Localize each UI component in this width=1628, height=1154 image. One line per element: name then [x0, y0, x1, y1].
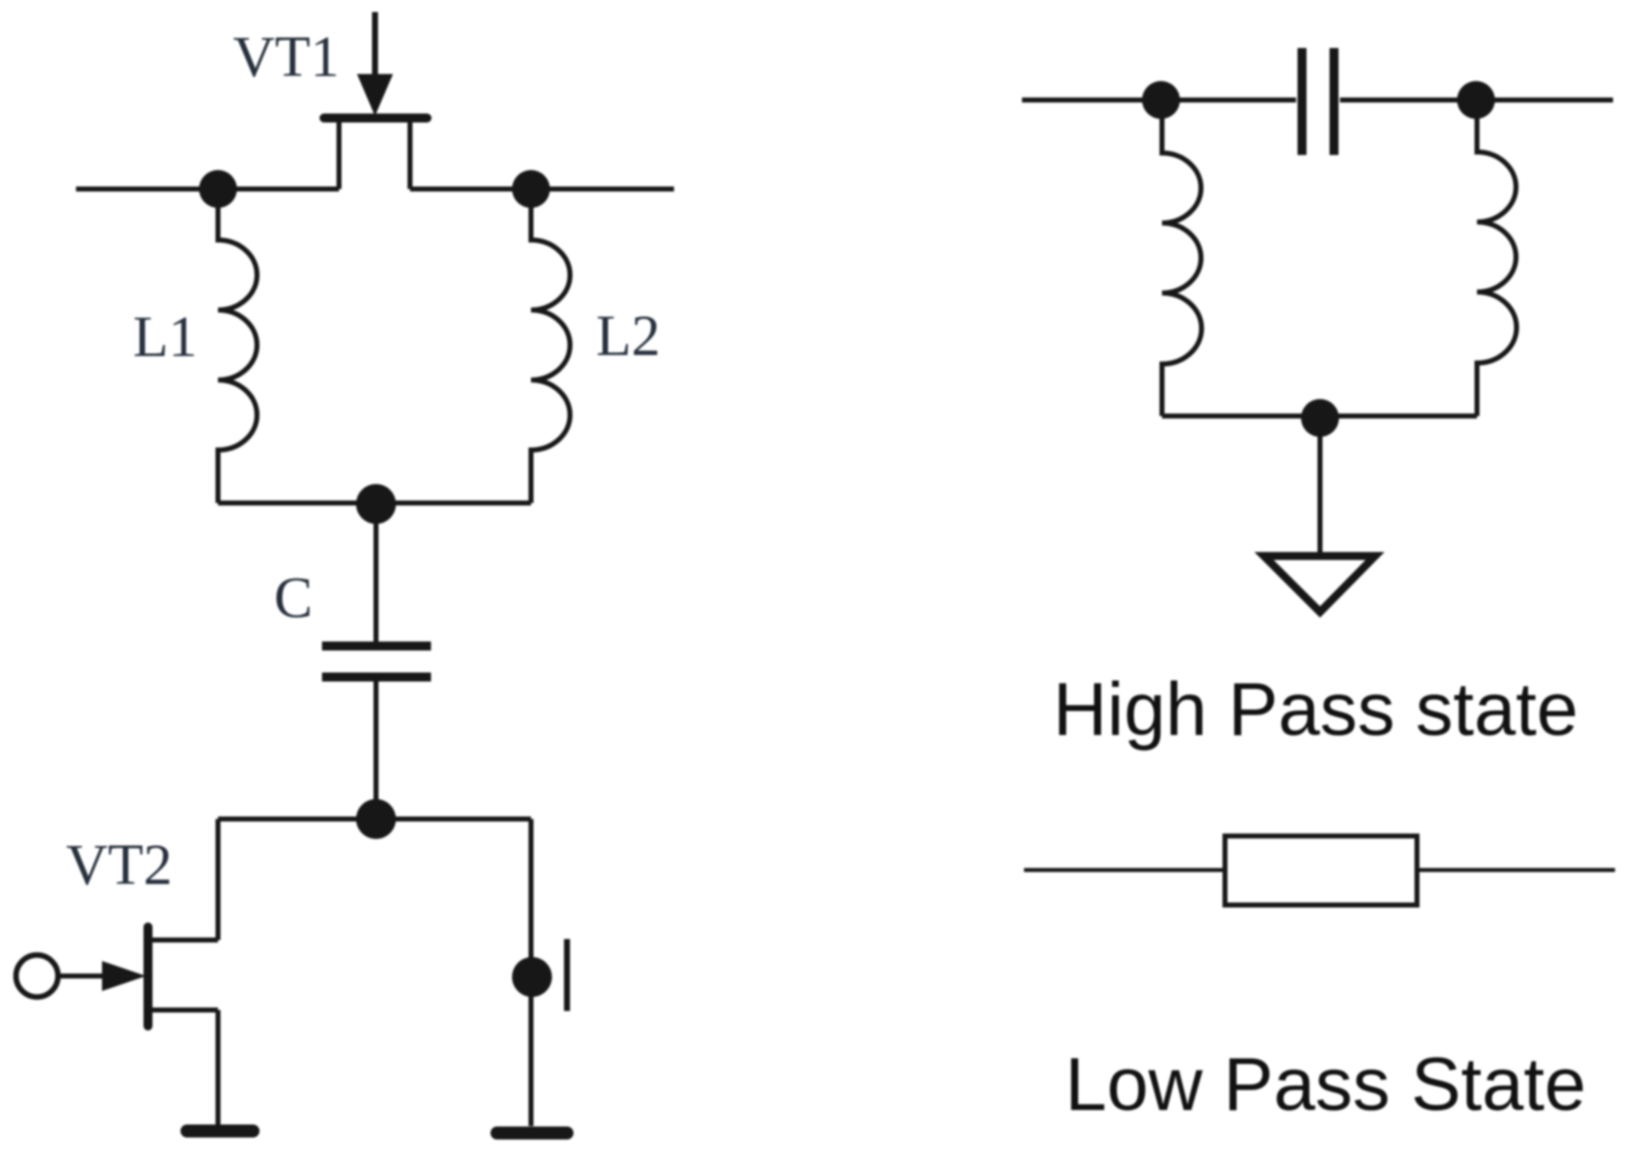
inductor L1 [218, 189, 257, 503]
inductor (right shunt) [1477, 100, 1517, 416]
transistor VT1 [324, 12, 427, 189]
wire: top line right part [1340, 98, 1613, 103]
svg-text:VT2: VT2 [66, 832, 172, 897]
ground (triangle) [1264, 556, 1375, 612]
node E (varactor node) [512, 957, 552, 997]
wire: bottom of L loop [218, 501, 531, 506]
node F (top-left junction) [1142, 81, 1180, 119]
node C1 (L1/L2/C junction) [356, 484, 396, 524]
inductor (left shunt) [1162, 100, 1202, 416]
svg-text:C: C [274, 565, 313, 630]
svg-text:VT1: VT1 [233, 24, 339, 89]
svg-text:L2: L2 [596, 303, 660, 368]
node D (lower junction) [356, 799, 396, 839]
node H (bottom junction) [1301, 399, 1339, 437]
node A (left junction) [199, 170, 237, 208]
capacitor C [322, 646, 431, 677]
wire: bottom joining line [1162, 414, 1477, 419]
wire: left drop to VT2 drain [216, 819, 221, 940]
node B (right junction) [512, 170, 550, 208]
wire: capacitor to lower node [374, 681, 379, 819]
resistor (low-pass series R) [1225, 836, 1417, 905]
wire: right branch down [529, 819, 534, 1126]
svg-text:Low Pass State: Low Pass State [1065, 1042, 1586, 1126]
svg-text:L1: L1 [133, 304, 197, 369]
transistor VT2 [16, 927, 218, 1026]
inductor L2 [531, 189, 570, 503]
terminal bar [564, 939, 570, 1011]
wire: VT2 source to ground [216, 1010, 221, 1126]
wire: left input segment [76, 187, 339, 192]
wire: to ground [1318, 418, 1323, 556]
ground (right) [497, 1127, 567, 1140]
wire: node to capacitor [374, 504, 379, 642]
wire: lower horizontal [218, 817, 531, 822]
node G (top-right junction) [1457, 81, 1495, 119]
wire: top line left part [1022, 98, 1296, 103]
wire: right segment to output [410, 187, 674, 192]
wire: left lead [1024, 868, 1225, 872]
svg-text:High Pass state: High Pass state [1053, 667, 1578, 751]
ground (left) [187, 1125, 253, 1138]
capacitor (high-pass series C) [1302, 48, 1334, 155]
wire: right lead [1417, 868, 1615, 872]
